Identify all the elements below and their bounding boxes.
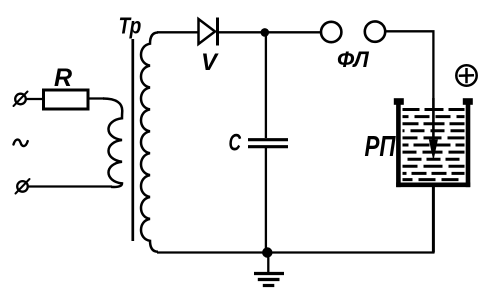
node junction top <box>261 28 270 37</box>
wire junction to contact <box>265 31 321 33</box>
contact FL right terminal <box>365 21 385 41</box>
wire bottom return <box>157 251 435 253</box>
wire bottom terminal to primary <box>28 185 113 187</box>
electrode arrow tip <box>430 140 438 159</box>
bath RP bottom <box>396 183 470 188</box>
diode V <box>199 18 218 46</box>
svg-text:ФЛ: ФЛ <box>337 47 370 72</box>
wire resistor to primary <box>88 97 104 99</box>
wire capacitor to bottom <box>265 148 267 253</box>
terminal input top <box>14 92 28 107</box>
wire terminal to resistor <box>26 98 44 100</box>
bath RP left wall <box>396 99 401 187</box>
bath RP right wall <box>466 99 471 187</box>
wire diode to junction <box>217 31 265 33</box>
wire junction to capacitor <box>265 32 267 138</box>
capacitor C <box>248 140 288 147</box>
svg-text:R: R <box>54 64 72 92</box>
polarity plus symbol <box>456 65 476 85</box>
electrode wire into bath <box>432 98 435 142</box>
ground stub wire <box>267 253 269 274</box>
transformer Tp primary winding <box>103 99 122 188</box>
wire contact to bath electrode <box>385 31 433 98</box>
bath left rim cap <box>394 98 404 105</box>
node junction bottom <box>262 247 272 257</box>
terminal input bottom <box>16 179 30 194</box>
resistor R <box>44 90 89 109</box>
bath right rim cap <box>463 98 473 105</box>
svg-text:C: C <box>229 130 242 156</box>
svg-text:Тр: Тр <box>119 14 142 39</box>
wire bath bottom to return <box>432 187 435 253</box>
contact FL left terminal <box>321 22 341 42</box>
AC source symbol ~ <box>14 140 28 147</box>
ground <box>254 274 284 286</box>
svg-text:РП: РП <box>365 131 397 162</box>
wire secondary top to diode <box>157 31 198 33</box>
electrolyte liquid dashes <box>403 110 465 180</box>
transformer secondary winding <box>141 33 158 252</box>
transformer core <box>131 39 134 241</box>
svg-text:V: V <box>201 49 219 76</box>
